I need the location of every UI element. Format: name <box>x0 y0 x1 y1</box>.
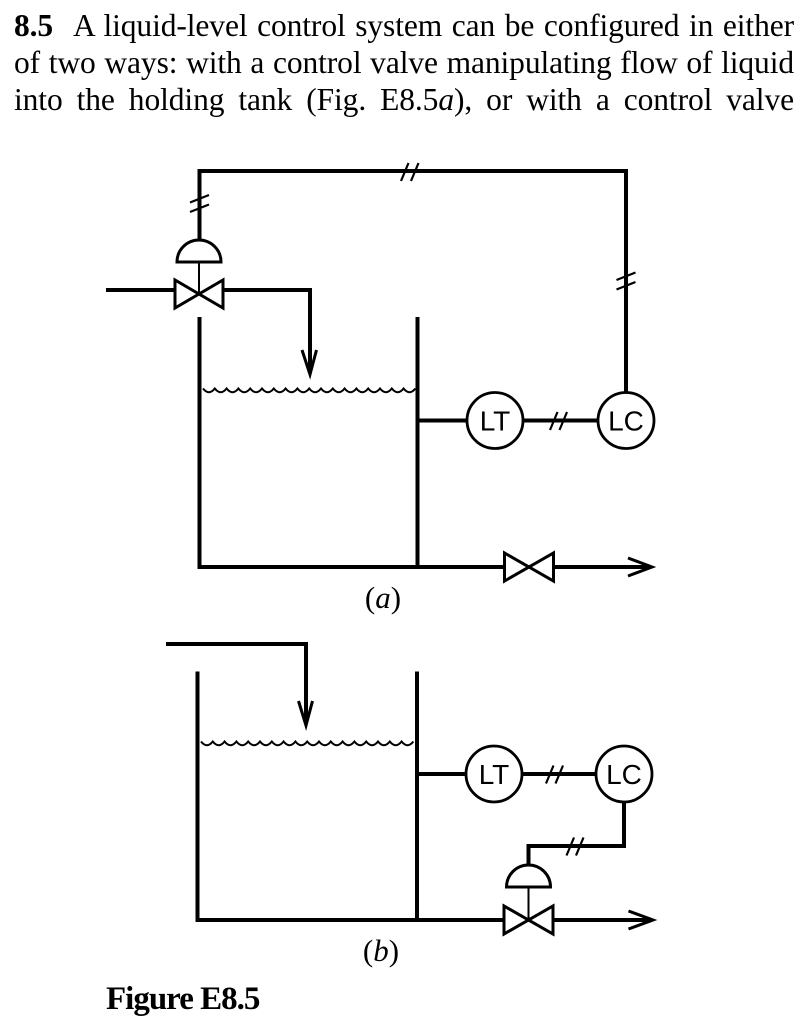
signal line LC down and over to outlet valve actuator (b) <box>529 802 625 866</box>
water surface wavy line (a) <box>203 389 415 393</box>
signal slashes above LC <box>617 273 636 290</box>
svg-text:(b): (b) <box>363 933 399 968</box>
tank (a) bottom / outlet pipe left segment <box>198 565 506 569</box>
tank (b) right wall <box>415 672 419 923</box>
valve stem (b) <box>528 887 530 920</box>
outlet pipe right segment (a) <box>554 565 651 569</box>
water surface wavy line (b) <box>201 742 413 746</box>
svg-text:Figure E8.5: Figure E8.5 <box>106 981 260 1017</box>
svg-text:LC: LC <box>606 759 642 790</box>
svg-text:LC: LC <box>608 406 644 437</box>
inlet pipe (a) <box>106 288 176 292</box>
signal line: vertical from top line down to LC <box>624 169 628 393</box>
svg-text:(a): (a) <box>365 580 401 615</box>
valve actuator dome (a) <box>177 240 221 262</box>
outlet control valve body (b) <box>504 906 553 934</box>
tank (b) left wall <box>196 672 200 921</box>
signal slashes between LT and LC (b) <box>546 766 563 784</box>
outlet valve actuator dome (b) <box>507 865 551 887</box>
tank (a) left wall <box>198 317 202 567</box>
pipe: valve to tank inlet drop <box>222 290 310 372</box>
outlet arrowhead (b) <box>629 911 654 929</box>
level transmitter LT (a) <box>467 393 523 449</box>
signal slashes on top horizontal line <box>401 163 419 181</box>
inlet control valve body (a) <box>175 280 223 308</box>
signal line LT to LC (a) <box>523 419 599 423</box>
signal line: vertical drop to valve actuator <box>198 169 202 241</box>
level controller LC (b) <box>596 746 652 802</box>
line tank to LT (a) <box>416 419 468 423</box>
signal slashes between LT and LC (a) <box>550 412 567 430</box>
svg-text:LT: LT <box>479 759 510 790</box>
valve stem (a) <box>198 262 200 294</box>
level transmitter LT (b) <box>466 746 522 802</box>
signal line: top horizontal from inlet valve to LC <box>198 169 629 173</box>
outlet valve (a) <box>505 553 554 581</box>
inlet pipe with drop (b) <box>166 644 306 723</box>
signal slashes above actuator <box>190 195 209 212</box>
signal slashes on LC-valve line (b) <box>567 838 584 856</box>
signal line LT to LC (b) <box>522 772 597 776</box>
svg-text:LT: LT <box>480 406 511 437</box>
inlet arrowhead into tank (b) <box>299 701 313 726</box>
paragraph text <box>14 7 794 118</box>
line tank to LT (b) <box>416 772 467 776</box>
outlet pipe right segment (b) <box>553 918 651 922</box>
outlet arrowhead (a) <box>628 558 652 576</box>
inlet arrowhead into tank (a) <box>302 350 317 375</box>
level controller LC (a) <box>598 393 654 449</box>
tank (a) right wall <box>416 317 420 569</box>
tank (b) bottom / outlet pipe left segment <box>196 918 504 922</box>
